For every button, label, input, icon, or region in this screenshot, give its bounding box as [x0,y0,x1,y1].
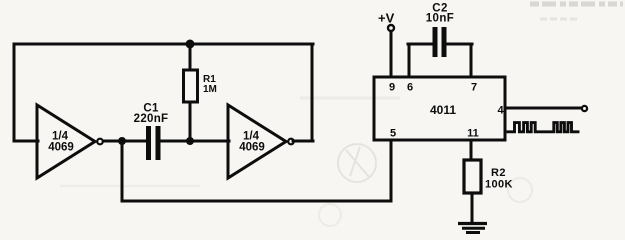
wire: up to 4011 pin 5 [390,140,393,201]
ground [458,224,487,233]
wire: C2 bridge right drop pin 7 [470,44,473,77]
wire: C2 bridge left drop pin 6 [408,44,411,77]
svg-text:9: 9 [389,82,395,94]
inverter U1 1/4 4069 [37,105,103,178]
wire: C2 bridge right horizontal [445,43,472,46]
svg-text:11: 11 [467,128,479,140]
svg-text:+V: +V [378,11,395,26]
svg-text:4: 4 [497,105,504,117]
faint print show-through top right [530,2,623,7]
svg-text:6: 6 [407,82,413,94]
node: junction at U1 output [118,137,126,145]
svg-text:100K: 100K [485,179,513,191]
wire: top feedback wire [14,43,313,46]
wire: R2 to ground [471,193,474,223]
wire: R1 bottom lead [189,102,192,141]
node: junction R1 bottom [186,137,194,145]
node: junction R1 top [186,40,195,49]
wire: pin 4 output [506,107,581,110]
wire: U1 output to C1 [103,140,147,143]
svg-text:4011: 4011 [430,103,456,117]
svg-text:1M: 1M [203,84,217,95]
IC U3 4011 [374,77,505,140]
waveform tone-burst symbol [508,123,578,132]
svg-text:4069: 4069 [239,142,265,154]
wire: junction down from U1 output [121,141,124,201]
wire: right vertical from U2 output [311,44,314,141]
resistor R1 1M [184,70,217,102]
wire: bottom run to pin 5 [122,200,391,203]
capacitor C2 10nF [426,3,454,58]
wire: C2 bridge left horizontal [408,43,434,46]
wire: R1 top lead [189,44,192,70]
capacitor C1 220nF [134,103,169,161]
inverter U2 1/4 4069 [228,105,294,178]
svg-text:220nF: 220nF [134,113,169,125]
svg-text:5: 5 [390,128,396,140]
wire: U2 output to corner [293,140,313,143]
svg-text:7: 7 [471,82,477,94]
svg-text:10nF: 10nF [426,13,454,25]
resistor R2 100K [464,160,513,193]
wire: pin 11 lead [470,140,473,160]
svg-text:4069: 4069 [48,142,74,154]
wire: inverter U1 input [14,140,38,143]
wire: left vertical [13,44,16,141]
terminal output pin 4 [582,106,587,111]
wire: +V down to pin 9 [390,31,393,77]
svg-text:R2: R2 [491,167,506,179]
wire: C1 to U2 input [160,140,229,143]
terminal +V [378,11,395,32]
